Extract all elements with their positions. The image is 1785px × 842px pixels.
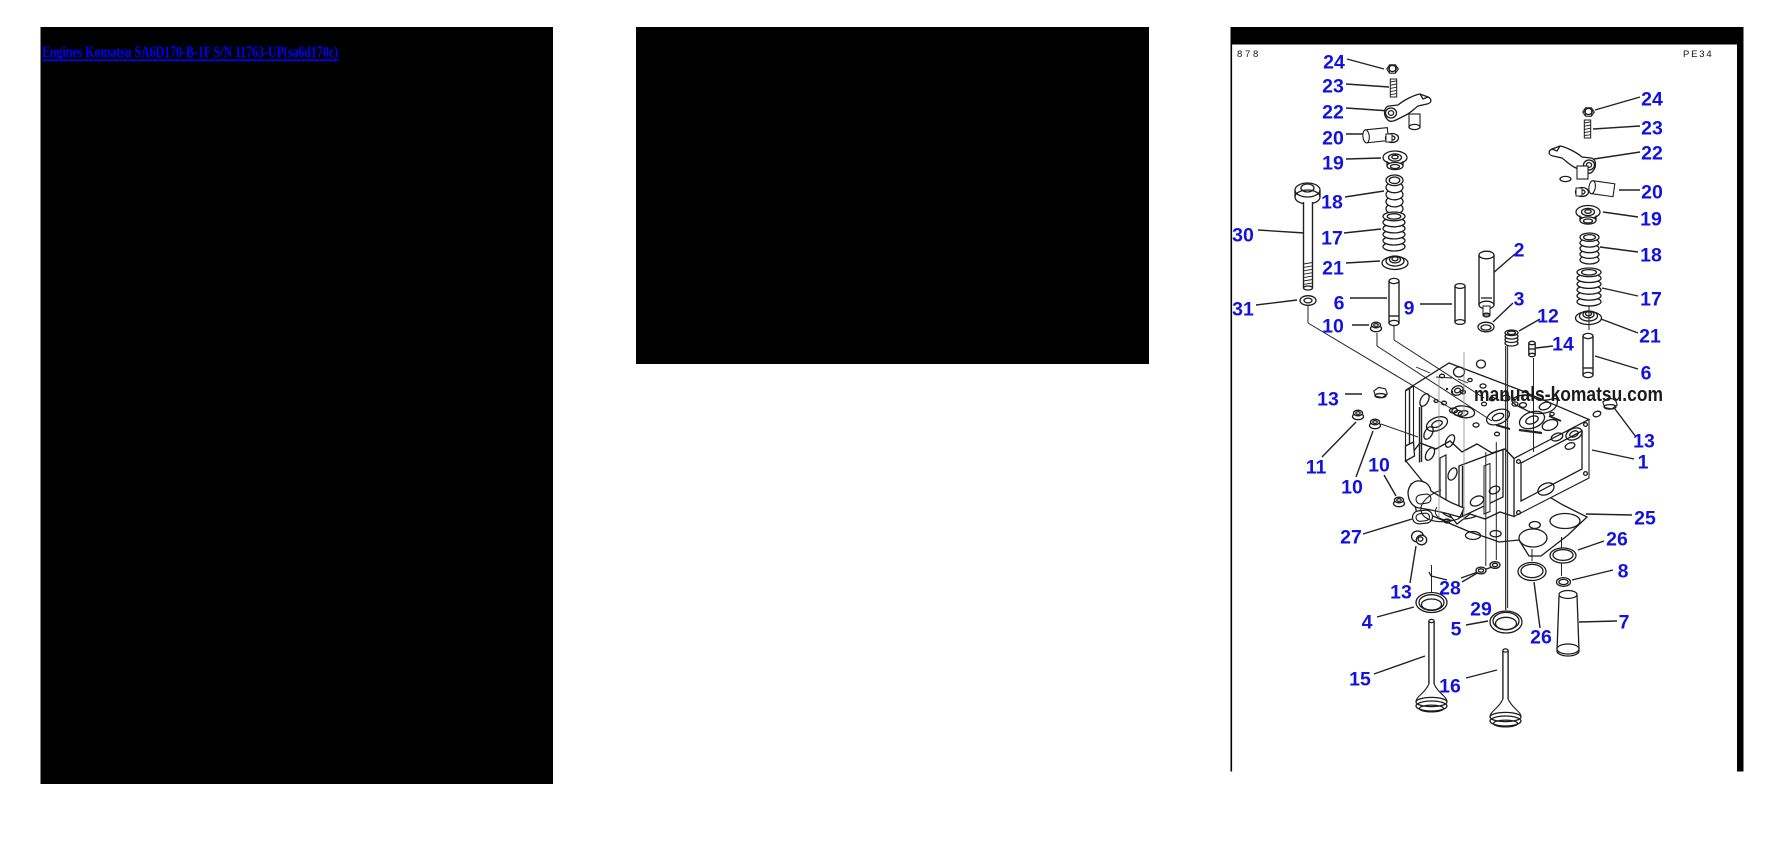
svg-text:29: 29 bbox=[1470, 599, 1492, 621]
svg-text:22: 22 bbox=[1641, 143, 1663, 165]
svg-text:21: 21 bbox=[1639, 326, 1661, 348]
svg-text:10: 10 bbox=[1368, 455, 1390, 477]
svg-text:18: 18 bbox=[1640, 245, 1662, 267]
svg-text:28: 28 bbox=[1439, 578, 1461, 600]
svg-text:17: 17 bbox=[1640, 289, 1662, 311]
svg-text:5: 5 bbox=[1451, 619, 1462, 641]
svg-text:3: 3 bbox=[1514, 289, 1525, 311]
svg-text:20: 20 bbox=[1641, 182, 1663, 204]
svg-text:30: 30 bbox=[1232, 225, 1254, 247]
svg-text:10: 10 bbox=[1341, 477, 1363, 499]
svg-text:23: 23 bbox=[1641, 118, 1663, 140]
svg-text:15: 15 bbox=[1349, 669, 1371, 691]
svg-text:26: 26 bbox=[1530, 627, 1552, 649]
svg-text:27: 27 bbox=[1340, 527, 1362, 549]
svg-text:14: 14 bbox=[1552, 334, 1574, 356]
svg-text:13: 13 bbox=[1633, 431, 1655, 453]
svg-text:22: 22 bbox=[1322, 102, 1344, 124]
svg-text:13: 13 bbox=[1317, 389, 1339, 411]
svg-text:Engines Komatsu SA6D170-B-1F S: Engines Komatsu SA6D170-B-1F S/N 11763-U… bbox=[42, 44, 338, 61]
svg-text:8: 8 bbox=[1618, 561, 1629, 583]
svg-text:12: 12 bbox=[1537, 306, 1559, 328]
svg-text:7: 7 bbox=[1619, 612, 1630, 634]
svg-text:1: 1 bbox=[1638, 452, 1649, 474]
svg-text:17: 17 bbox=[1321, 228, 1343, 250]
svg-text:21: 21 bbox=[1322, 258, 1344, 280]
svg-text:23: 23 bbox=[1322, 76, 1344, 98]
svg-text:878: 878 bbox=[1237, 49, 1261, 60]
svg-text:26: 26 bbox=[1606, 529, 1628, 551]
svg-text:19: 19 bbox=[1322, 153, 1344, 175]
svg-text:11: 11 bbox=[1306, 457, 1327, 479]
svg-text:4: 4 bbox=[1362, 612, 1373, 634]
svg-text:PE34: PE34 bbox=[1683, 49, 1713, 60]
svg-text:16: 16 bbox=[1439, 676, 1461, 698]
svg-text:20: 20 bbox=[1322, 128, 1344, 150]
svg-text:9: 9 bbox=[1404, 298, 1415, 320]
svg-text:19: 19 bbox=[1640, 209, 1662, 231]
svg-text:31: 31 bbox=[1232, 299, 1254, 321]
svg-text:18: 18 bbox=[1321, 192, 1343, 214]
svg-text:2: 2 bbox=[1514, 240, 1525, 262]
svg-text:13: 13 bbox=[1390, 582, 1412, 604]
svg-text:manuals-komatsu.com: manuals-komatsu.com bbox=[1474, 383, 1663, 406]
svg-text:6: 6 bbox=[1334, 293, 1345, 315]
svg-text:24: 24 bbox=[1323, 52, 1345, 74]
svg-text:6: 6 bbox=[1641, 363, 1652, 385]
svg-text:24: 24 bbox=[1641, 89, 1663, 111]
svg-text:10: 10 bbox=[1322, 316, 1344, 338]
svg-text:25: 25 bbox=[1634, 508, 1656, 530]
